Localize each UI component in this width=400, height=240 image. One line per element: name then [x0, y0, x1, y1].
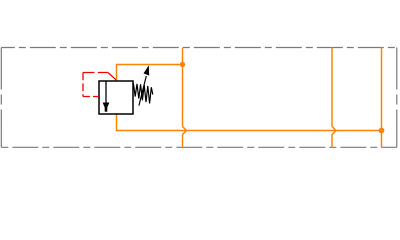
- relief valve V1 internal flow path with arrow: [103, 81, 110, 112]
- pilot line (red dashed) to valve V1: [83, 73, 116, 97]
- adjustment arrow through spring: [139, 65, 149, 105]
- node B junction dot: [379, 128, 385, 134]
- manifold boundary dashed box: [1, 48, 397, 148]
- wire T-line from valve bottom to node B: [117, 114, 382, 131]
- node A junction dot: [180, 62, 185, 67]
- relief valve V1 body: [99, 81, 133, 114]
- wire vertical net at x=381.5: [381, 48, 383, 148]
- wire vertical net at x=182.5 (top border to bottom border, hop over T-line): [183, 48, 187, 148]
- wire vertical net at x=332 (hop over T-line): [332, 48, 336, 148]
- wire P-line from valve top to node A: [117, 65, 183, 82]
- spring of valve V1: [133, 83, 152, 103]
